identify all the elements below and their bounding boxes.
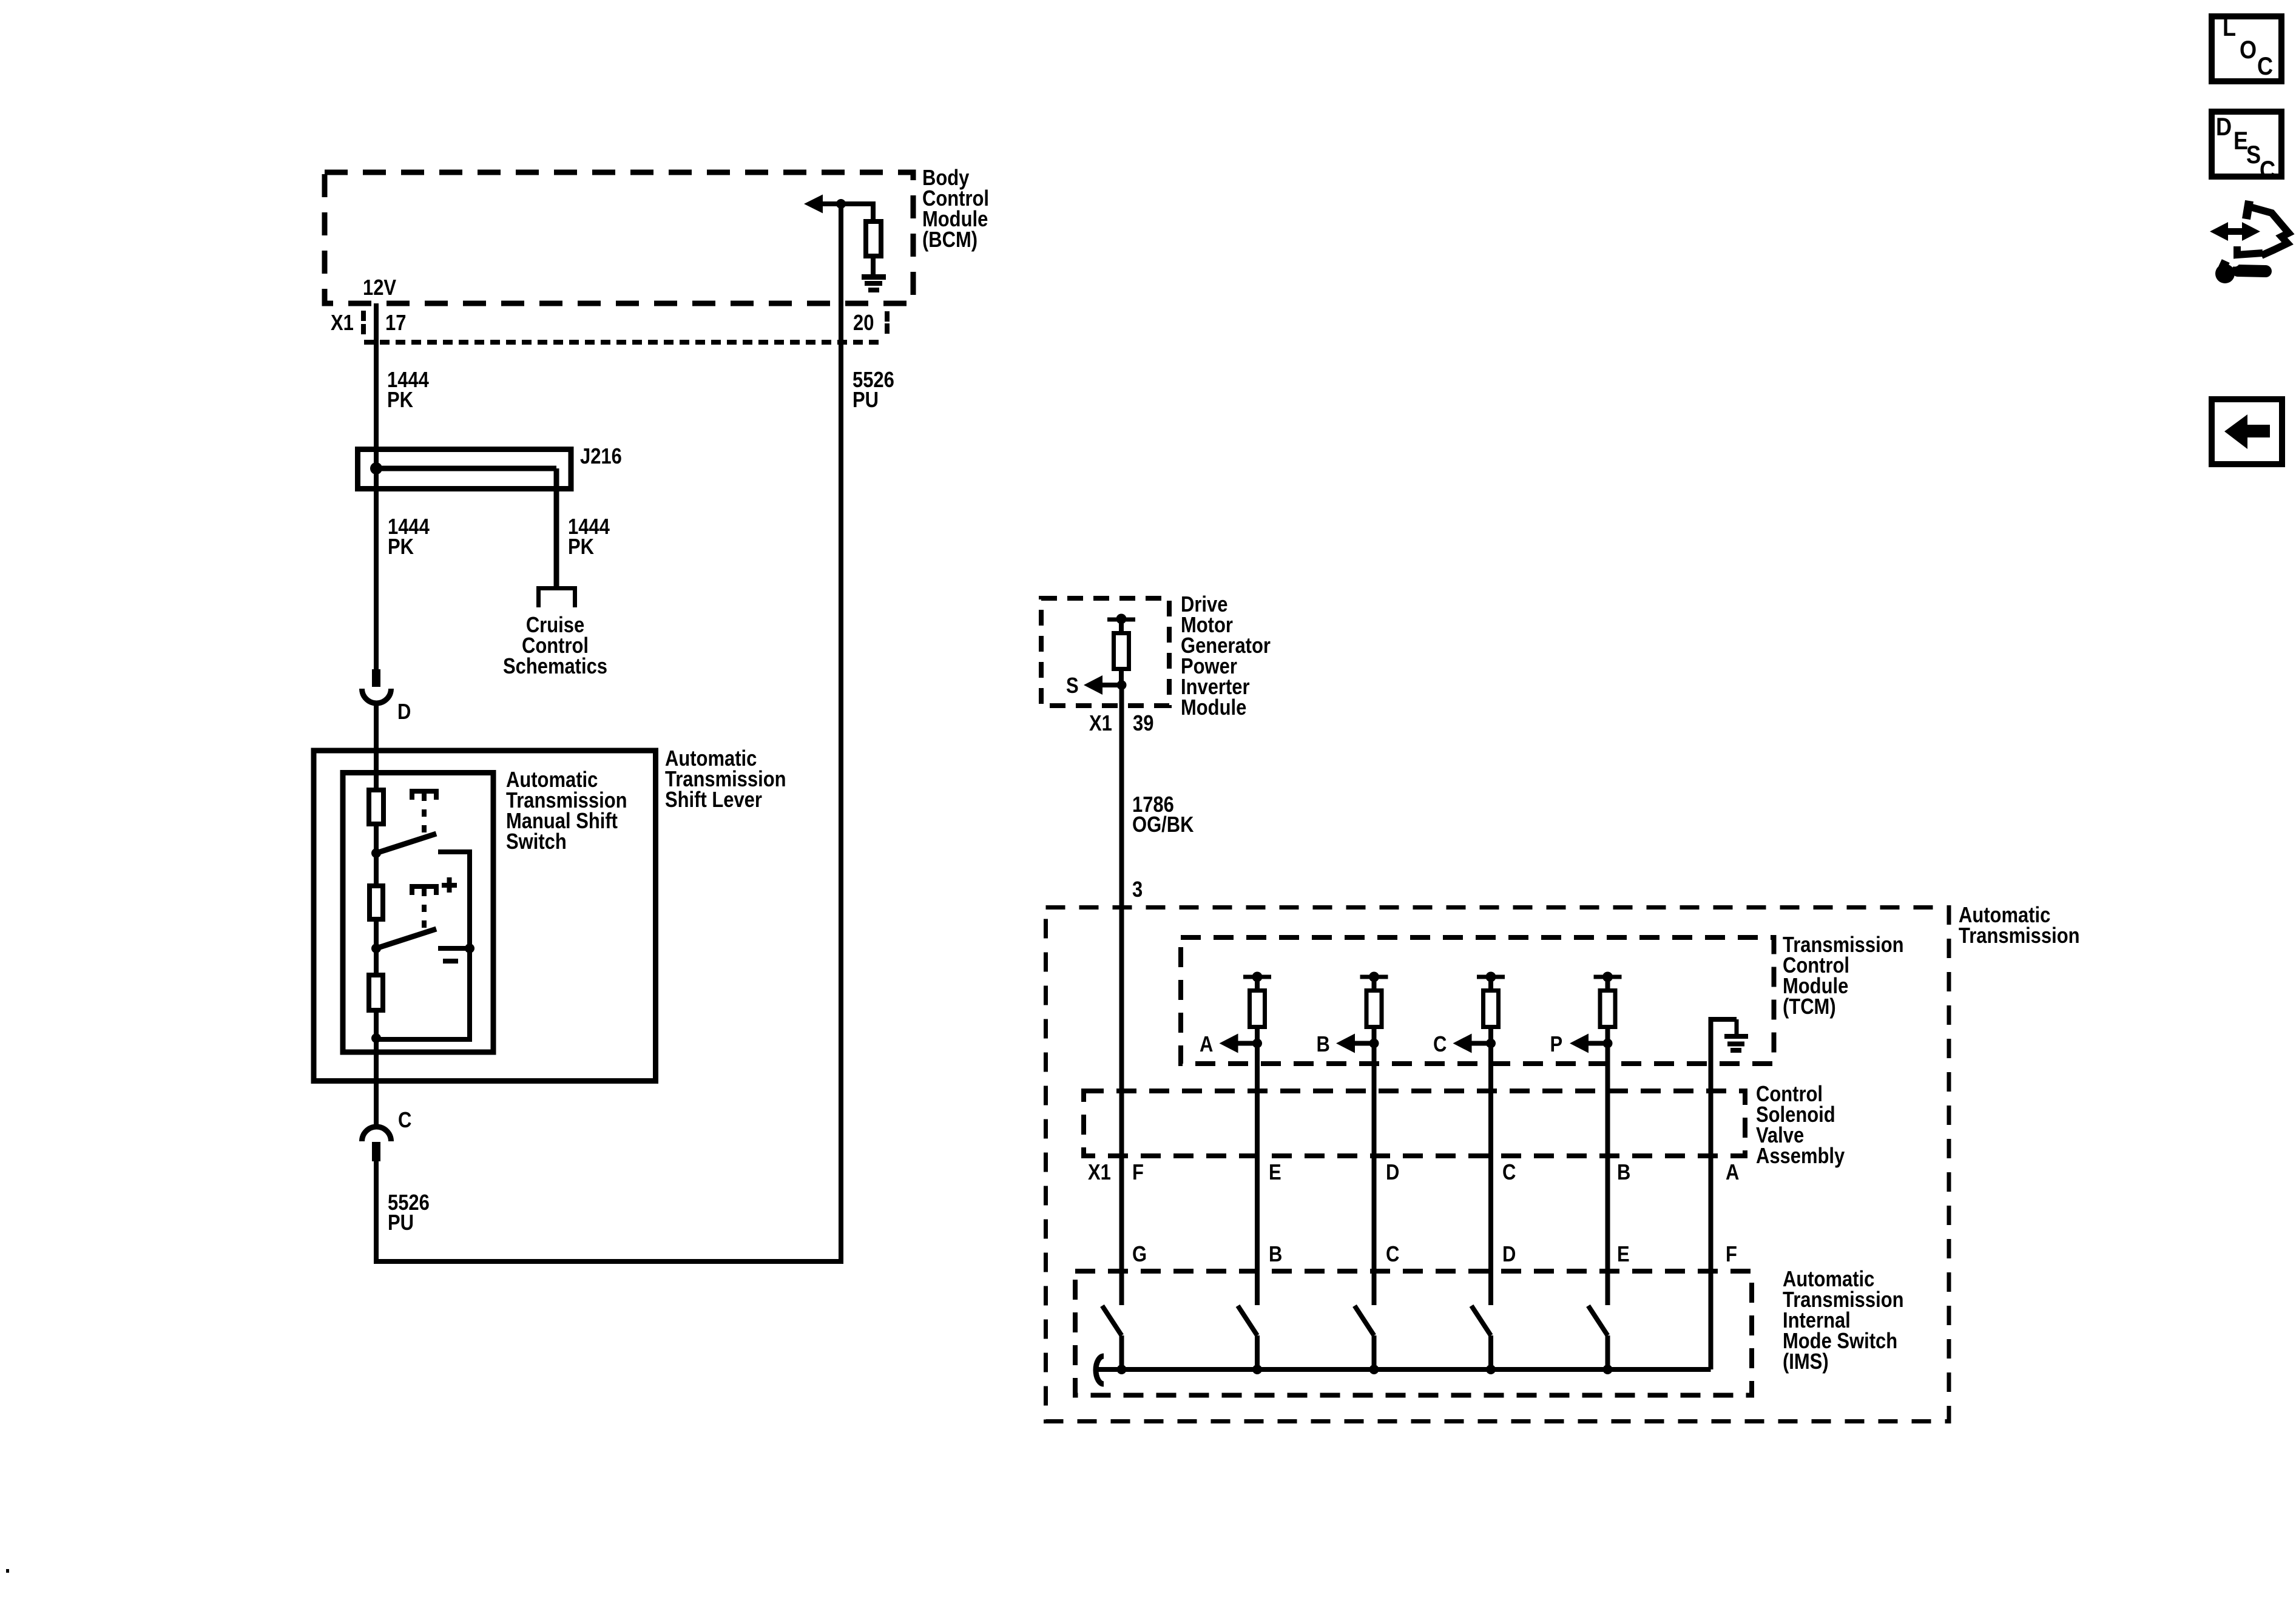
label: pin 17 xyxy=(385,311,406,336)
label: IMS pin D xyxy=(1502,1243,1516,1267)
connector D: male pin xyxy=(372,669,380,687)
label: CSVA pin F xyxy=(1132,1161,1144,1185)
wire: S1 fixed contact to right branch xyxy=(438,849,470,854)
icon: part outline shape xyxy=(2246,201,2249,219)
label: connector X1 (solenoid valve assembly) xyxy=(1088,1161,1111,1185)
wire: bar to resistor A xyxy=(1255,979,1260,991)
wire: column C down to mode switch xyxy=(1488,1045,1493,1305)
label: pin 20 xyxy=(853,311,874,336)
svg-text:F: F xyxy=(1132,1161,1144,1185)
switch S2: tap-down contact blade xyxy=(376,929,436,948)
label: TCM input P xyxy=(1550,1033,1563,1057)
svg-text:C: C xyxy=(1502,1161,1516,1185)
node: junction dot at TCM input A xyxy=(1252,1039,1262,1048)
svg-text:C: C xyxy=(1433,1033,1447,1057)
svg-text:3: 3 xyxy=(1132,878,1143,902)
label: connector X1 (inverter) xyxy=(1089,712,1112,736)
wire: ground branch inside TCM xyxy=(1709,1017,1737,1022)
wire: BCM internal branch to pull-up resistor xyxy=(841,201,873,206)
resistor R2 (middle) in manual shift switch xyxy=(370,886,383,919)
label: wire 1786 OG/BK xyxy=(1132,793,1174,817)
label: wire 5526 PU (below connector C) xyxy=(388,1191,430,1215)
svg-text:X1: X1 xyxy=(1088,1161,1111,1185)
resistor: TCM pull-up for input P xyxy=(1600,991,1615,1027)
svg-text:A: A xyxy=(1200,1033,1213,1057)
label: terminal C xyxy=(398,1109,411,1133)
label: CSVA pin E xyxy=(1269,1161,1281,1185)
wire: 1786 OG/BK from inverter module down to transmission xyxy=(1119,687,1124,1305)
label: + (tap-up) xyxy=(442,883,457,888)
arrow: S signal (left-pointing) xyxy=(1102,683,1121,687)
module box: Automatic Transmission (big dashed) xyxy=(1046,908,1950,1422)
module box: Body Control Module (BCM) dashed outline xyxy=(325,172,913,303)
wire: resistor C to junction xyxy=(1488,1029,1493,1045)
wire: resistor B to junction xyxy=(1372,1029,1377,1045)
label: terminal D xyxy=(397,700,411,724)
svg-text:OG/BK: OG/BK xyxy=(1132,813,1194,837)
arrow: TCM sense input A (left-pointing) xyxy=(1238,1041,1257,1046)
label: IMS pin C xyxy=(1386,1243,1399,1267)
label: Body Control Module (BCM) xyxy=(922,166,989,252)
svg-text:39: 39 xyxy=(1133,712,1153,736)
node: junction dot at TCM input P xyxy=(1603,1039,1613,1048)
svg-text:17: 17 xyxy=(385,311,406,336)
node: junction dot on right branch at S2 contact xyxy=(465,944,474,953)
module box: Drive Motor Generator Power Inverter Module (dashed) xyxy=(1041,598,1169,706)
wire: TCM pull-up bar for input A xyxy=(1243,975,1271,979)
switch: IMS contact B (open blade) xyxy=(1238,1306,1257,1335)
resistor: BCM internal (pull-up) xyxy=(866,221,881,256)
svg-text:S: S xyxy=(2246,141,2261,169)
label: TCM input B xyxy=(1317,1033,1330,1057)
wire: bar to resistor xyxy=(1119,622,1124,633)
node: junction dot at R1/R2 tap xyxy=(371,848,381,858)
svg-text:Transmission: Transmission xyxy=(1959,924,2080,948)
wire: S2 fixed contact xyxy=(438,946,470,951)
svg-text:Switch: Switch xyxy=(506,830,567,854)
connector D: female terminal cup xyxy=(362,689,391,703)
label: CSVA pin B xyxy=(1617,1161,1630,1185)
svg-text:B: B xyxy=(1617,1161,1630,1185)
wire: bar to resistor C xyxy=(1488,979,1493,991)
label: Drive Motor Generator Power Inverter Module xyxy=(1181,593,1227,617)
node: junction dot at BCM pin 20 net xyxy=(836,199,846,209)
arrow: TCM sense input P (left-pointing) xyxy=(1589,1041,1608,1046)
svg-text:E: E xyxy=(1269,1161,1281,1185)
label: wire 1444 PK (left branch below J216) xyxy=(388,515,430,539)
module box: Transmission Control Module (TCM) dashed xyxy=(1181,937,1774,1064)
icon: DESC box xyxy=(2212,112,2281,177)
label: IMS pin G xyxy=(1132,1243,1147,1267)
switch S1: dashed actuator link and cap xyxy=(412,791,436,800)
node: dot on pull-up bar P xyxy=(1602,972,1613,982)
switch S1: tap-up contact blade xyxy=(376,834,436,853)
node: junction dot at S output xyxy=(1117,680,1127,690)
component box: Automatic Transmission Shift Lever (outer) xyxy=(314,751,656,1081)
wire: IMS common bus xyxy=(1098,1367,1711,1372)
svg-text:PU: PU xyxy=(853,388,879,413)
connector tick: dotted divider right of pin 20 xyxy=(885,311,890,322)
svg-text:F: F xyxy=(1726,1243,1737,1267)
label: pin 3 (automatic transmission) xyxy=(1132,878,1143,902)
svg-text:Assembly: Assembly xyxy=(1756,1144,1845,1169)
node: splice junction dot J216 xyxy=(370,462,382,474)
wire: TCM pull-up bar for input C xyxy=(1477,975,1505,979)
wire: resistor to output junction xyxy=(1119,671,1124,687)
svg-text:O: O xyxy=(2240,36,2257,64)
switch: IMS contact E (open blade) xyxy=(1589,1306,1608,1335)
label: 12V supply inside BCM xyxy=(363,276,397,300)
label: wire 5526 PU (below pin 20) xyxy=(853,368,894,393)
svg-text:P: P xyxy=(1550,1033,1563,1057)
node: junction dot on common bus at G xyxy=(1117,1365,1127,1374)
svg-text:B: B xyxy=(1317,1033,1330,1057)
resistor: TCM pull-up for input A xyxy=(1250,991,1265,1027)
arrow: signal into BCM (left-pointing) xyxy=(819,201,841,206)
label: IMS pin E xyxy=(1617,1243,1630,1267)
label: Transmission Control Module (TCM) xyxy=(1783,933,1904,957)
svg-text:Schematics: Schematics xyxy=(503,655,607,679)
label: Automatic Transmission Internal Mode Switch (IMS) xyxy=(1783,1268,1874,1292)
wire: resistor A to junction xyxy=(1255,1029,1260,1045)
svg-text:Shift Lever: Shift Lever xyxy=(665,788,762,812)
wire: TCM ground return column xyxy=(1709,1022,1714,1369)
svg-text:C: C xyxy=(398,1109,411,1133)
node: junction dot at R2/R3 tap xyxy=(371,944,381,953)
svg-text:(IMS): (IMS) xyxy=(1783,1350,1829,1374)
label: - (tap-down) xyxy=(443,959,458,964)
connector C: female terminal dome xyxy=(362,1127,391,1141)
label: TCM input A xyxy=(1200,1033,1213,1057)
resistor: TCM pull-up for input B xyxy=(1366,991,1382,1027)
wire: resistor P to junction xyxy=(1606,1029,1610,1045)
wire: column P down to mode switch xyxy=(1606,1045,1610,1305)
icon: back arrow xyxy=(2224,414,2270,449)
node: dot on pull-up bar C xyxy=(1486,972,1496,982)
switch S2: dashed actuator link and cap xyxy=(412,886,436,895)
svg-text:E: E xyxy=(1617,1243,1630,1267)
node: dot on supply bar xyxy=(1116,614,1127,624)
resistor R3 (bottom) in manual shift switch xyxy=(369,975,383,1010)
label: CSVA pin D xyxy=(1386,1161,1399,1185)
wire: resistor to ground stub xyxy=(871,258,876,277)
label: J216 xyxy=(580,445,622,469)
wire: TCM pull-up bar for input B xyxy=(1360,975,1388,979)
svg-text:(TCM): (TCM) xyxy=(1783,995,1836,1019)
node: dot on pull-up bar B xyxy=(1369,972,1379,982)
svg-text:D: D xyxy=(1386,1161,1399,1185)
resistor: drive motor inverter internal xyxy=(1114,633,1129,669)
wire: switch common bottom tie xyxy=(376,1037,470,1042)
label: connector X1 xyxy=(331,311,354,336)
label: CSVA pin C xyxy=(1502,1161,1516,1185)
svg-text:S: S xyxy=(1066,674,1079,698)
svg-text:C: C xyxy=(2260,157,2275,184)
svg-text:PK: PK xyxy=(387,388,413,413)
mark: stray page dot bottom left xyxy=(6,1569,9,1573)
module box: Automatic Transmission Internal Mode Switch (IMS) dashed xyxy=(1075,1271,1752,1396)
svg-text:Module: Module xyxy=(1181,696,1246,720)
wire: TCM pull-up bar for input P xyxy=(1594,975,1622,979)
wire: bar to resistor B xyxy=(1372,979,1377,991)
component box: Automatic Transmission Manual Shift Switch (inner) xyxy=(343,773,493,1053)
wire: 1444 PK / 5526 PU main loop (pin 17 down, across bottom, up to pin 20) xyxy=(374,303,379,672)
svg-text:X1: X1 xyxy=(331,311,354,336)
node: junction dot on common bus at E xyxy=(1603,1365,1613,1374)
ground: BCM internal ground symbol xyxy=(862,274,886,280)
svg-text:(BCM): (BCM) xyxy=(922,228,977,252)
label: Control Solenoid Valve Assembly xyxy=(1756,1082,1823,1107)
ground: TCM internal ground symbol xyxy=(1724,1034,1748,1039)
wire: column B down to mode switch xyxy=(1372,1045,1377,1305)
icon: back-arrow box xyxy=(2212,399,2282,464)
svg-text:20: 20 xyxy=(853,311,874,336)
node: junction dot on common bus at B xyxy=(1252,1365,1262,1374)
svg-text:J216: J216 xyxy=(580,445,622,469)
module box: Control Solenoid Valve Assembly (dashed) xyxy=(1084,1091,1745,1156)
label: Automatic Transmission Shift Lever xyxy=(665,747,757,771)
svg-text:B: B xyxy=(1269,1243,1282,1267)
svg-text:L: L xyxy=(2223,14,2236,42)
resistor R1 (top) in manual shift switch xyxy=(369,790,383,824)
svg-text:PK: PK xyxy=(388,535,414,559)
node: junction dot at switch common xyxy=(371,1033,381,1043)
arrow: TCM sense input C (left-pointing) xyxy=(1471,1041,1491,1046)
label: wire 1444 PK (right branch to cruise control) xyxy=(568,515,610,539)
svg-text:PU: PU xyxy=(388,1211,414,1235)
label: pin 39 xyxy=(1133,712,1153,736)
wire: splice bar inside J216 and branch to cruise control xyxy=(376,466,556,471)
icon: double-headed arrow (swap) xyxy=(2210,222,2260,241)
node: dot on pull-up bar A xyxy=(1252,972,1263,982)
connector tick: dotted divider left of pin 17 xyxy=(361,311,366,321)
splice J216 box xyxy=(358,450,572,489)
icon: wrench xyxy=(2215,264,2235,283)
label: Automatic Transmission xyxy=(1959,903,2050,928)
svg-text:A: A xyxy=(1726,1161,1739,1185)
switch: IMS contact D (open blade) xyxy=(1471,1306,1491,1335)
node: junction dot at TCM input B xyxy=(1369,1039,1379,1048)
svg-text:D: D xyxy=(2216,113,2232,141)
label: Cruise Control Schematics xyxy=(526,613,584,638)
svg-text:X1: X1 xyxy=(1089,712,1112,736)
connector row: X1 header under BCM (dashed strip) xyxy=(364,340,885,345)
connector C: male pin xyxy=(372,1142,380,1161)
switch: IMS contact G (open blade) xyxy=(1102,1306,1122,1335)
label: CSVA pin A xyxy=(1726,1161,1739,1185)
label: S xyxy=(1066,674,1079,698)
svg-text:PK: PK xyxy=(568,535,594,559)
svg-text:G: G xyxy=(1132,1243,1147,1267)
wire: bar to resistor P xyxy=(1606,979,1610,991)
switch: IMS contact C (open blade) xyxy=(1355,1306,1374,1335)
node: junction dot on common bus at D xyxy=(1486,1365,1496,1374)
svg-text:C: C xyxy=(1386,1243,1399,1267)
svg-text:C: C xyxy=(2257,53,2273,81)
svg-text:12V: 12V xyxy=(363,276,397,300)
svg-text:D: D xyxy=(1502,1243,1516,1267)
switch: IMS selector hook (park indicator) xyxy=(1096,1356,1104,1384)
label: IMS pin F xyxy=(1726,1243,1737,1267)
label: wire 1444 PK (above splice J216) xyxy=(387,368,429,393)
node: junction dot on common bus at C xyxy=(1369,1365,1379,1374)
node: junction dot at TCM input C xyxy=(1486,1039,1496,1048)
resistor: TCM pull-up for input C xyxy=(1484,991,1499,1027)
label: Automatic Transmission Manual Shift Switch xyxy=(506,768,598,792)
label: IMS pin B xyxy=(1269,1243,1282,1267)
label: TCM input C xyxy=(1433,1033,1447,1057)
arrow: TCM sense input B (left-pointing) xyxy=(1355,1041,1374,1046)
svg-text:D: D xyxy=(397,700,411,724)
wire: column A down to mode switch xyxy=(1255,1045,1260,1305)
wire: internal supply bar above inverter resistor xyxy=(1107,618,1135,622)
icon: LOC box xyxy=(2212,16,2281,81)
off-page connector bracket to Cruise Control Schematics xyxy=(539,589,575,608)
